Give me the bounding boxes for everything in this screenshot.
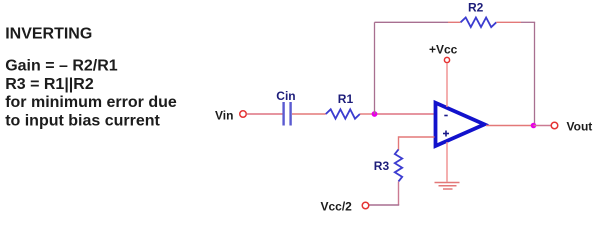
node B junction dot (531, 123, 537, 129)
wire op-amp to ground (446, 142, 448, 182)
wire R1 to node A (360, 113, 375, 115)
wire op-amp noninverting input (399, 136, 435, 138)
svg-text:for minimum error due: for minimum error due (5, 94, 177, 111)
wire feedback right vertical (534, 22, 536, 125)
svg-text:R2: R2 (468, 1, 484, 15)
wire feedback left vertical (374, 22, 376, 114)
terminal Vout (551, 122, 558, 129)
resistor R1 (326, 109, 360, 118)
svg-text:Gain = – R2/R1: Gain = – R2/R1 (5, 58, 118, 75)
wire feedback top right corner (521, 21, 535, 23)
wire +Vcc to op-amp (446, 63, 448, 107)
wire op-amp output (486, 125, 534, 127)
capacitor Cin (284, 102, 291, 126)
resistor R3 (395, 149, 402, 181)
wire node B to Vout (534, 125, 552, 127)
wire stub to R2 left (448, 21, 461, 23)
wire Cin to R1 (292, 113, 326, 115)
op-amp plus sign (443, 131, 449, 137)
wire Vin to Cin (247, 113, 283, 115)
svg-text:Cin: Cin (276, 89, 295, 103)
svg-text:to input bias current: to input bias current (5, 112, 160, 129)
wire Vcc/2 horizontal (369, 204, 399, 206)
svg-text:R1: R1 (338, 92, 354, 106)
terminal Vcc/2 (362, 202, 369, 209)
wire node A to op-amp inverting input (375, 113, 435, 115)
svg-text:INVERTING: INVERTING (5, 26, 92, 43)
svg-text:Vcc/2: Vcc/2 (321, 200, 353, 214)
wire noninverting down to R3 (398, 136, 400, 150)
resistor R2 (461, 18, 497, 28)
ground (435, 183, 460, 190)
wire stub R2 right (496, 21, 521, 23)
terminal Vin (240, 111, 247, 118)
op-amp U1 (436, 103, 485, 146)
svg-text:Vin: Vin (215, 109, 233, 123)
wire feedback top left (375, 21, 449, 23)
node A junction dot (372, 111, 378, 117)
svg-text:R3 = R1||R2: R3 = R1||R2 (5, 76, 94, 93)
terminal +Vcc (444, 57, 449, 62)
svg-text:Vout: Vout (567, 120, 593, 134)
wire R3 bottom (398, 182, 400, 206)
svg-text:+Vcc: +Vcc (429, 43, 458, 57)
svg-text:R3: R3 (374, 159, 390, 173)
op-amp minus sign (444, 115, 447, 117)
